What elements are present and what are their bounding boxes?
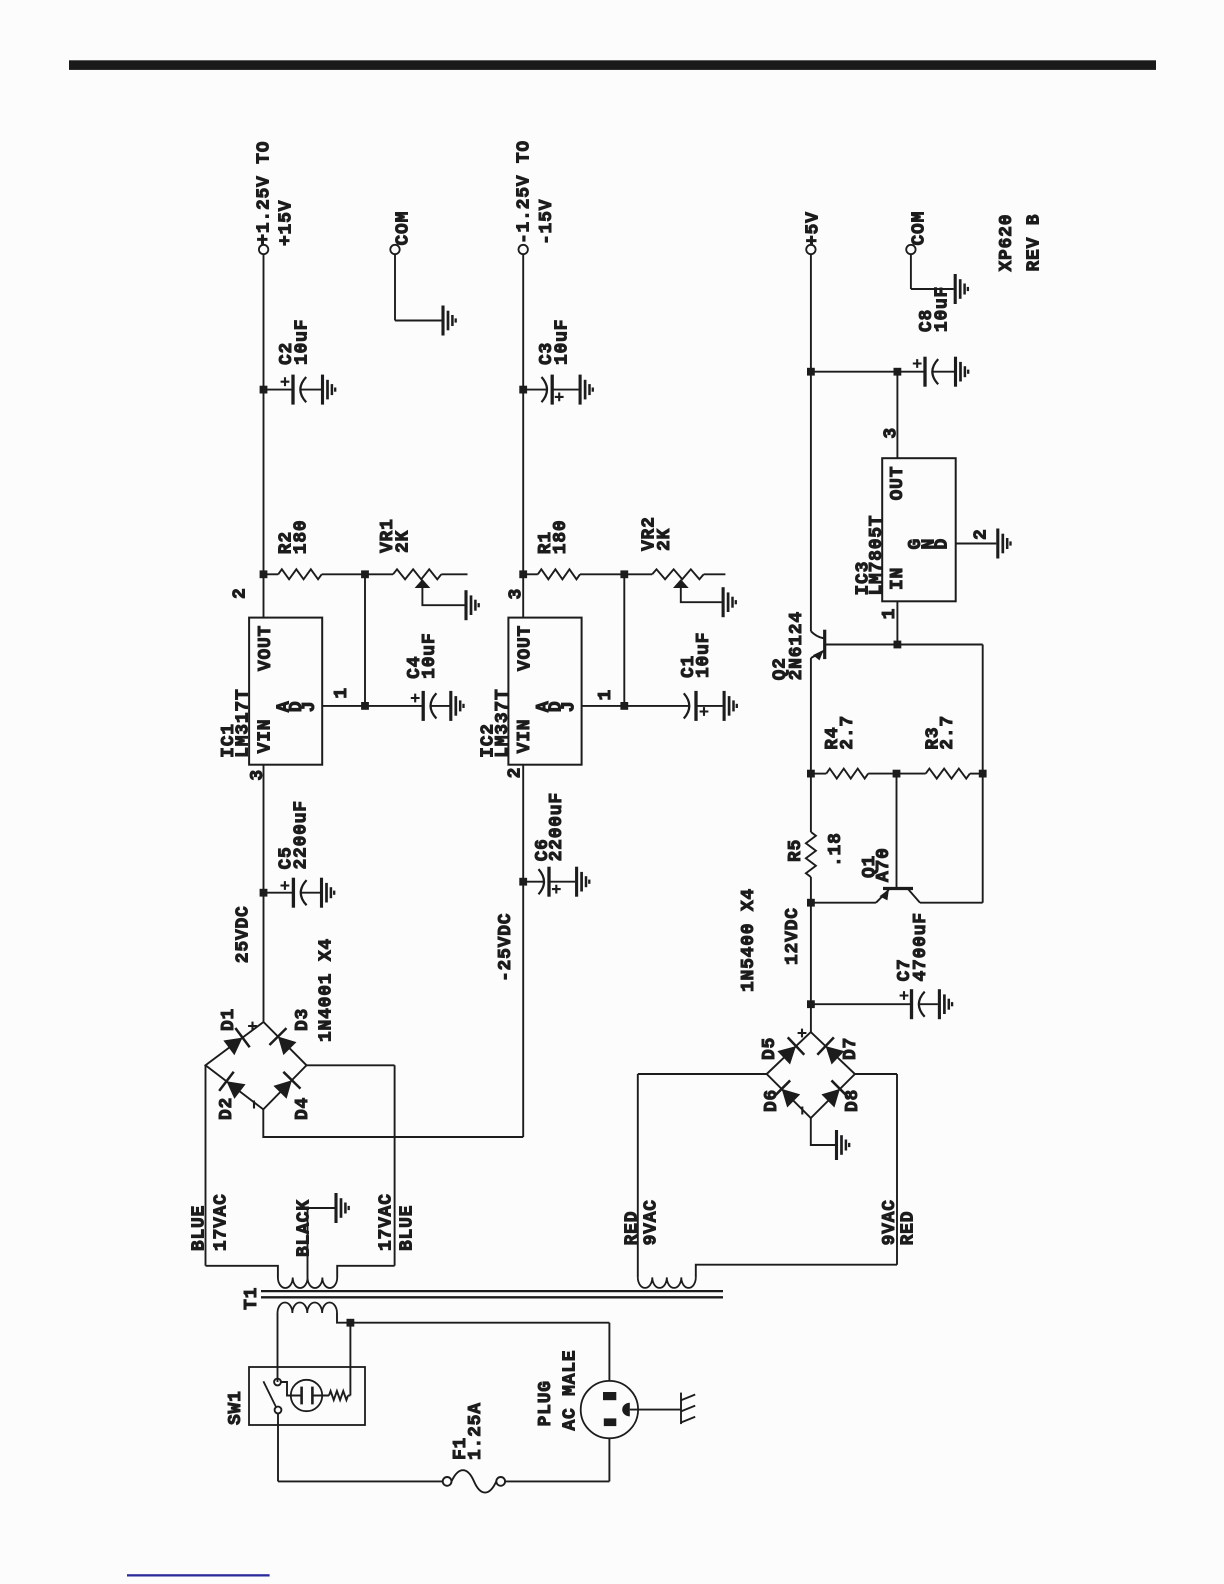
wire COM-left horizontal	[394, 254, 396, 320]
wire Q1 collector down	[920, 902, 983, 904]
wire Q1 emitter from rail	[811, 902, 876, 904]
svg-text:XP620: XP620	[997, 214, 1017, 272]
wire +5V rail bridge to R5	[810, 877, 812, 1032]
capacitor C4 10uF body	[365, 705, 423, 707]
wire R3 bottom lead	[970, 773, 983, 775]
svg-text:4700uF: 4700uF	[911, 912, 931, 981]
wire VR2 top lead	[624, 573, 652, 575]
svg-text:J: J	[300, 701, 320, 713]
bridge2 diamond wires	[767, 1032, 855, 1118]
ground of C7	[939, 989, 952, 1019]
svg-text:2: 2	[971, 528, 991, 540]
wire VR1 wiper stem	[422, 588, 464, 606]
diode D3 1N4001	[278, 1037, 297, 1056]
diode D8 1N5400	[821, 1089, 840, 1108]
svg-text:OUT: OUT	[888, 466, 908, 501]
fuse F1 bottom circle	[496, 1477, 505, 1486]
SW1 left contact	[275, 1407, 282, 1414]
wire C5 to ground	[300, 892, 320, 894]
wire VR1 top lead	[365, 573, 393, 575]
svg-text:2N6124: 2N6124	[787, 611, 807, 680]
wire R4 bottom lead	[868, 773, 896, 775]
svg-text:VOUT: VOUT	[256, 625, 276, 671]
Q1 emitter lead	[876, 890, 889, 903]
wire IC3 OUT up to rail	[811, 371, 898, 373]
wire SW1 to fuse line	[277, 1413, 279, 1481]
wire fuse line upper	[278, 1480, 443, 1482]
transformer T1 primary winding	[278, 1303, 338, 1314]
ground of IC3 pin 2	[998, 529, 1011, 559]
node primary/lamp junction	[347, 1319, 355, 1327]
node rail/C6 junction	[519, 878, 527, 886]
svg-text:+15V: +15V	[277, 200, 297, 246]
fuse F1 element	[452, 1470, 497, 1492]
wire R2 top lead	[264, 573, 279, 575]
svg-text:LM7805T: LM7805T	[867, 515, 887, 596]
svg-text:17VAC: 17VAC	[377, 1193, 397, 1251]
chassis ground hatch 1	[681, 1417, 695, 1423]
node Q2-base/IC3-IN junction	[894, 641, 902, 649]
wire R5 to R4 node	[810, 774, 812, 832]
wire lamp circuit to junction	[349, 1323, 351, 1396]
potentiometer VR2 2K body	[652, 569, 704, 579]
capacitor C3 10uF body	[523, 389, 547, 391]
SW1 blade	[263, 1381, 276, 1407]
wire Q2 base to IC3 node	[896, 601, 898, 644]
plug ground pin	[622, 1403, 630, 1417]
transformer T1 core line 1	[261, 1296, 723, 1298]
svg-text:1: 1	[332, 687, 352, 699]
svg-text:D5: D5	[760, 1037, 780, 1060]
node rail/R4 junction	[807, 770, 815, 778]
C3 plus polarity mark	[555, 393, 564, 402]
wire 9VAC top horizontal	[637, 1074, 639, 1277]
node R3 bottom junction	[979, 770, 987, 778]
wire lamp feed	[281, 1382, 291, 1396]
node rail/C7 junction	[807, 1000, 815, 1008]
wire +5V rail right of Q2	[810, 254, 812, 631]
wire ADJ pin of IC1	[322, 705, 365, 707]
svg-text:AC MALE: AC MALE	[560, 1350, 580, 1431]
resistor R4 2.7 body	[826, 769, 868, 779]
diode D4 1N4001	[273, 1080, 291, 1099]
C1 plus polarity mark	[700, 707, 709, 716]
wire 9VAC top vertical	[638, 1073, 767, 1075]
svg-text:1N4001 X4: 1N4001 X4	[317, 938, 337, 1042]
wire bridge2 minus to ground	[811, 1118, 835, 1145]
svg-text:2: 2	[231, 587, 251, 599]
node rail/C2 junction	[260, 386, 268, 394]
wire 17VAC winding top jog	[206, 1266, 278, 1278]
bridge2 minus output mark	[801, 1107, 803, 1115]
chassis ground hatch 2	[681, 1406, 695, 1412]
C4 plus polarity mark	[411, 694, 420, 703]
wire R1 top lead	[523, 573, 538, 575]
wire 17VAC bottom vertical	[307, 1064, 395, 1066]
svg-text:10uF: 10uF	[293, 319, 313, 365]
terminal COM left	[390, 245, 399, 254]
wire R4 top lead	[811, 773, 826, 775]
diode D2 1N4001	[226, 1081, 245, 1099]
wire to plug top	[608, 1323, 610, 1381]
diode D1 1N4001	[223, 1038, 242, 1056]
wire junction down to plug	[350, 1322, 609, 1324]
node ADJ2/R1/VR2 junction	[620, 570, 628, 578]
plug prong left	[604, 1418, 617, 1426]
chassis ground bar	[680, 1393, 682, 1425]
wire to plug bottom	[608, 1438, 610, 1481]
svg-text:VIN: VIN	[515, 719, 535, 754]
plug prong right	[603, 1392, 616, 1400]
wire Q1 collector to R3 bottom	[982, 774, 984, 903]
C2 plus polarity mark	[281, 377, 290, 386]
svg-text:1: 1	[880, 608, 900, 620]
svg-text:D1: D1	[219, 1008, 239, 1031]
svg-text:3: 3	[248, 769, 268, 781]
svg-text:A70: A70	[874, 847, 894, 882]
C5 plus polarity mark	[281, 881, 290, 890]
wire Q1 base	[896, 774, 898, 889]
ground of C4	[451, 691, 464, 721]
ground of BLACK center tap	[336, 1193, 349, 1223]
svg-text:D7: D7	[841, 1037, 861, 1060]
svg-text:1.25A: 1.25A	[466, 1402, 486, 1460]
capacitor C6 2200uF body	[523, 881, 544, 883]
wire lamp resistor to junction	[348, 1395, 350, 1397]
diode D7 1N5400	[826, 1046, 845, 1064]
node rail/C5 junction	[260, 889, 268, 897]
node rail/Q1 junction	[807, 899, 815, 907]
svg-text:D3: D3	[293, 1008, 313, 1031]
node junction rail/R2	[260, 570, 268, 578]
svg-text:RED: RED	[622, 1211, 642, 1246]
svg-text:-1.25V TO: -1.25V TO	[514, 140, 534, 244]
wire plug ground pin down	[630, 1409, 681, 1411]
wire 9VAC bottom vertical	[855, 1073, 897, 1075]
wire VR1 bottom stub	[441, 573, 467, 575]
wire R2 bottom lead	[322, 573, 365, 575]
top rule bar	[69, 60, 1156, 70]
wire C1 to ground	[696, 705, 723, 707]
wire fuse line lower	[505, 1480, 609, 1482]
node ADJ/R2/VR1 junction	[361, 570, 369, 578]
Q2 emitter lead	[811, 651, 825, 658]
VR1 wiper arrow	[415, 579, 431, 588]
node ADJ2/C1 junction	[620, 702, 628, 710]
wire ADJ pin of IC2	[582, 705, 625, 707]
wire C2 to ground	[300, 389, 322, 391]
ground of COM right	[955, 274, 968, 304]
svg-text:PLUG: PLUG	[536, 1380, 556, 1426]
svg-text:10uF: 10uF	[553, 319, 573, 365]
wire 9VAC bottom to winding	[696, 1265, 897, 1278]
wire C4 to ground	[430, 705, 450, 707]
svg-text:180: 180	[291, 520, 311, 555]
transformer T1 core line 2	[261, 1290, 723, 1292]
svg-text:RED: RED	[899, 1211, 919, 1246]
svg-text:BLACK: BLACK	[295, 1199, 315, 1257]
ground of C8	[956, 357, 969, 387]
node ADJ/C4 junction	[361, 702, 369, 710]
svg-text:IN: IN	[888, 567, 908, 590]
Q2 emitter arrow	[813, 650, 824, 661]
svg-text:LM317T: LM317T	[234, 688, 254, 757]
wire COM-right horizontal	[910, 254, 912, 289]
svg-text:2K: 2K	[394, 530, 414, 553]
wire BLACK center tap	[308, 1208, 335, 1278]
fuse F1 top circle	[443, 1477, 452, 1486]
wire bottom loop to R3	[982, 645, 984, 774]
transistor Q2 base bar	[823, 630, 826, 659]
resistor R2 180 body	[278, 569, 322, 579]
bridge1 diamond wires	[206, 1022, 307, 1109]
wire +15V rail VIN side	[263, 765, 265, 1022]
svg-text:BLUE: BLUE	[189, 1205, 209, 1251]
IC U-IC2 box LM337T	[508, 618, 581, 765]
svg-text:2K: 2K	[655, 528, 675, 551]
ground of C2	[323, 375, 336, 405]
C6 plus polarity mark	[552, 885, 561, 894]
chassis ground hatch 3	[681, 1395, 695, 1401]
neon lamp electrode 2	[311, 1387, 314, 1405]
SW1 right contact	[274, 1379, 281, 1386]
svg-text:BLUE: BLUE	[398, 1205, 418, 1251]
svg-text:10uF: 10uF	[420, 633, 440, 679]
wire VR2 bottom stub	[704, 573, 726, 575]
svg-text:3: 3	[882, 427, 902, 439]
wire C3 to ground	[552, 389, 578, 391]
svg-text:+1.25V TO: +1.25V TO	[254, 141, 274, 245]
svg-text:SW1: SW1	[226, 1390, 246, 1425]
wire 17VAC top to bridge1	[205, 1065, 207, 1266]
wire R3 top lead	[897, 773, 926, 775]
VR2 wiper arrow	[673, 579, 689, 588]
wire bridge1 minus to -rail corner	[263, 1109, 523, 1137]
wire IC3 OUT	[896, 372, 898, 459]
svg-text:VIN: VIN	[256, 719, 276, 754]
wire C6 to ground	[549, 881, 575, 883]
diode D5 1N5400	[777, 1046, 796, 1064]
wire COM-left to ground	[395, 320, 442, 322]
wire -15V rail VOUT side	[522, 254, 524, 617]
svg-text:COM: COM	[394, 211, 414, 246]
capacitor C7 4700uF body	[811, 1003, 912, 1005]
svg-text:10uF: 10uF	[694, 632, 714, 678]
svg-text:LM337T: LM337T	[493, 688, 513, 757]
svg-text:+5V: +5V	[804, 211, 824, 246]
svg-text:VOUT: VOUT	[515, 625, 535, 671]
wire ADJ2 node horizontal	[623, 574, 625, 706]
bridge2 plus output mark	[798, 1029, 807, 1038]
svg-text:REV B: REV B	[1025, 214, 1045, 272]
resistor R3 2.7 body	[926, 769, 970, 779]
wire 9VAC bottom horizontal	[896, 1074, 898, 1265]
svg-text:9VAC: 9VAC	[641, 1199, 661, 1245]
bridge1 minus output mark	[253, 1101, 255, 1109]
node rail/+5V-C8 junction	[807, 368, 815, 376]
svg-text:D2: D2	[217, 1097, 237, 1120]
IC U-IC1 box LM317T	[249, 618, 322, 765]
svg-text:1: 1	[596, 689, 616, 701]
terminal COM right	[906, 245, 915, 254]
terminal +5V output	[806, 245, 815, 254]
lamp series resistor body	[329, 1391, 348, 1400]
wire C7 to ground	[918, 1003, 938, 1005]
node junction rail/R1	[519, 570, 527, 578]
wire R4 node to Q2 emitter	[810, 658, 812, 774]
wire VR2 wiper stem	[681, 588, 722, 603]
ground of C5	[322, 878, 335, 908]
svg-text:2.7: 2.7	[938, 715, 958, 750]
svg-text:12VDC: 12VDC	[783, 907, 803, 965]
terminal -1.25V/-15V output	[519, 245, 528, 254]
resistor R5 .18 body	[806, 832, 816, 877]
footer blue underline	[127, 1574, 270, 1576]
svg-text:J: J	[560, 701, 580, 713]
wire primary bottom jog	[337, 1313, 350, 1323]
diode D6 1N5400	[782, 1089, 801, 1108]
neon lamp electrode stems	[291, 1395, 329, 1397]
Q1 collector lead	[908, 889, 920, 903]
svg-text:17VAC: 17VAC	[211, 1193, 231, 1251]
wire IC3 GND pin	[956, 543, 997, 545]
svg-text:2200uF: 2200uF	[291, 800, 311, 869]
wire 17VAC bottom to bridge1	[394, 1065, 396, 1266]
wire Q2 base node down	[897, 644, 982, 646]
node rail/C3 junction	[519, 386, 527, 394]
svg-text:180: 180	[551, 520, 571, 555]
svg-text:10uF: 10uF	[933, 286, 953, 332]
wire Q2 base down	[825, 644, 898, 646]
svg-text:2200uF: 2200uF	[547, 792, 567, 861]
bridge1 plus output mark	[248, 1022, 257, 1031]
ground of bridge2	[837, 1130, 850, 1160]
wire 17VAC winding bottom jog	[337, 1266, 394, 1278]
IC U-IC3 box LM7805T	[882, 458, 956, 601]
capacitor C2 10uF body	[264, 389, 294, 391]
transformer T1 secondary 9VAC winding	[638, 1277, 696, 1288]
svg-text:D4: D4	[293, 1097, 313, 1120]
svg-text:-15V: -15V	[537, 199, 557, 245]
svg-text:25VDC: 25VDC	[234, 905, 254, 963]
wire ADJ node horizontal	[364, 574, 366, 706]
wire +15V rail VOUT side	[263, 254, 265, 617]
svg-text:-25VDC: -25VDC	[496, 913, 516, 982]
plug AC male circle	[581, 1381, 638, 1438]
switch SW1 box	[249, 1367, 365, 1425]
neon lamp NE1 circle	[291, 1380, 322, 1411]
svg-text:D: D	[933, 538, 953, 550]
wire primary top to switch	[277, 1313, 279, 1382]
node IC3-OUT/C8 junction	[894, 368, 902, 376]
terminal +1.25V/+15V output	[259, 245, 268, 254]
ground of COM left	[443, 306, 456, 336]
capacitor C5 2200uF body	[264, 892, 294, 894]
svg-text:2: 2	[505, 767, 525, 779]
neon lamp electrode 1	[300, 1387, 303, 1405]
wire C8 to ground	[932, 371, 955, 373]
C7 plus polarity mark	[900, 991, 909, 1000]
wire R1 bottom lead	[580, 573, 624, 575]
svg-text:3: 3	[507, 588, 527, 600]
svg-text:9VAC: 9VAC	[880, 1199, 900, 1245]
potentiometer VR1 2K body	[393, 569, 441, 579]
capacitor C8 10uF body	[897, 371, 925, 373]
svg-text:R5: R5	[786, 839, 806, 862]
capacitor C1 10uF body	[624, 705, 689, 707]
svg-text:.18: .18	[826, 832, 846, 867]
svg-text:T1: T1	[242, 1287, 262, 1310]
node R4/R3/Q1-base junction	[893, 770, 901, 778]
transistor Q1 base bar	[883, 887, 913, 890]
ground of C1	[724, 691, 737, 721]
svg-text:D6: D6	[762, 1089, 782, 1112]
ground of C3	[580, 375, 593, 405]
svg-text:1N5400 X4: 1N5400 X4	[739, 888, 759, 992]
ground of C6	[577, 867, 590, 897]
Q1 emitter arrow	[880, 889, 889, 900]
svg-text:2.7: 2.7	[838, 715, 858, 750]
ground of VR1 wiper	[466, 590, 479, 620]
resistor R1 180 body	[538, 569, 580, 579]
wire COM-right to ground	[911, 288, 954, 290]
C8 plus polarity mark	[913, 359, 922, 368]
transformer T1 secondary 17VAC winding	[278, 1278, 337, 1289]
Q2 collector lead	[811, 631, 825, 638]
wire -15V rail VIN side	[522, 765, 524, 1137]
ground of VR2 wiper	[723, 587, 736, 617]
svg-text:D8: D8	[843, 1089, 863, 1112]
svg-text:COM: COM	[909, 211, 929, 246]
